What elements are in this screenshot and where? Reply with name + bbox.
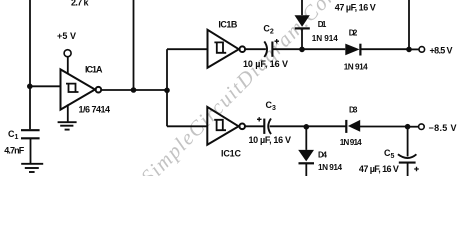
capacitor C1	[21, 130, 40, 138]
diode D4	[298, 150, 314, 163]
svg-text:10 µF, 16 V: 10 µF, 16 V	[243, 59, 288, 69]
wire +8.5V rail vertical	[408, 0, 410, 49]
terminal -8.5V	[419, 124, 425, 130]
capacitor C3	[257, 117, 271, 134]
wire IC1B output to C2	[245, 48, 266, 50]
svg-text:+8.5 V: +8.5 V	[430, 46, 453, 56]
inverter IC1A (1/6 7414)	[61, 69, 102, 109]
wire D3 to -8.5V node	[360, 126, 408, 128]
wire to IC1B input	[167, 48, 208, 50]
svg-text:10 µF, 16 V: 10 µF, 16 V	[249, 135, 292, 145]
inverter IC1B	[208, 30, 246, 68]
junction node D1-D2	[299, 47, 305, 53]
inverter IC1C	[207, 107, 245, 145]
wire C5 top lead	[407, 127, 409, 157]
ground under C1	[21, 164, 43, 172]
diode D1	[295, 15, 310, 28]
wire C3 to D4 node	[270, 125, 307, 127]
junction node splitter	[164, 88, 170, 94]
svg-text:IC1C: IC1C	[221, 149, 242, 159]
wire D4 bottom lead	[305, 163, 307, 176]
svg-text:D3: D3	[349, 105, 358, 114]
wire to IC1C input	[167, 125, 207, 127]
capacitor C2	[264, 39, 279, 57]
junction node feedback	[131, 87, 137, 93]
wire IC1A input	[30, 85, 61, 87]
svg-text:1/6 7414: 1/6 7414	[79, 105, 111, 115]
wire feedback vertical from 2.7k resistor	[133, 0, 135, 90]
svg-text:+5 V: +5 V	[57, 31, 76, 41]
svg-text:4.7nF: 4.7nF	[4, 146, 25, 156]
wire D1 top lead	[301, 0, 303, 15]
wire D4 top lead	[305, 127, 307, 150]
svg-text:1N 914: 1N 914	[340, 138, 362, 147]
watermark SimpleCircuitDiagram.Com	[136, 0, 345, 189]
wire +8.5V node to terminal	[409, 48, 419, 50]
capacitor C5	[398, 154, 419, 171]
svg-text:D2: D2	[349, 29, 358, 38]
svg-text:1N 914: 1N 914	[344, 63, 368, 72]
svg-text:2.7 k: 2.7 k	[71, 0, 89, 7]
svg-text:47 µF, 16 V: 47 µF, 16 V	[359, 164, 399, 174]
wire C1 top lead	[29, 86, 31, 129]
svg-text:D1: D1	[318, 20, 327, 29]
wire C2 to D1 node	[272, 48, 302, 50]
wire +5V supply lead	[67, 57, 69, 74]
wire IC1A ground lead	[67, 104, 69, 121]
wire D1 node to D2	[302, 48, 345, 50]
wire vertical splitter	[166, 49, 168, 126]
wire C5 bottom lead	[407, 163, 409, 176]
ground under IC1A	[58, 122, 77, 129]
svg-text:−8.5 V: −8.5 V	[429, 123, 457, 133]
diode D3	[346, 120, 360, 133]
wire D4 node to D3	[306, 125, 346, 127]
junction node C3-D4	[304, 124, 310, 130]
terminal +8.5V	[419, 47, 425, 53]
supply +5V terminal	[64, 50, 71, 57]
wire C1 bottom lead	[30, 139, 32, 164]
wire IC1C output to C3	[245, 125, 264, 127]
wire D2 to +8.5V node	[361, 48, 410, 50]
wire left vertical rail to 2.7k resistor	[29, 0, 31, 86]
wire D1 bottom lead	[301, 29, 303, 49]
svg-text:D4: D4	[318, 151, 328, 160]
wire -8.5V node to terminal	[408, 126, 419, 128]
svg-text:1N 914: 1N 914	[318, 163, 342, 172]
svg-text:1N 914: 1N 914	[312, 34, 338, 43]
svg-text:IC1B: IC1B	[218, 20, 238, 30]
junction node +8.5V rail	[406, 47, 412, 53]
junction node -8.5V rail	[405, 124, 411, 130]
junction node at IC1A input	[27, 84, 33, 90]
svg-text:47 µF, 16 V: 47 µF, 16 V	[335, 2, 376, 12]
diode D2	[345, 44, 360, 56]
svg-text:IC1A: IC1A	[85, 65, 103, 75]
wire IC1A output	[101, 89, 167, 91]
